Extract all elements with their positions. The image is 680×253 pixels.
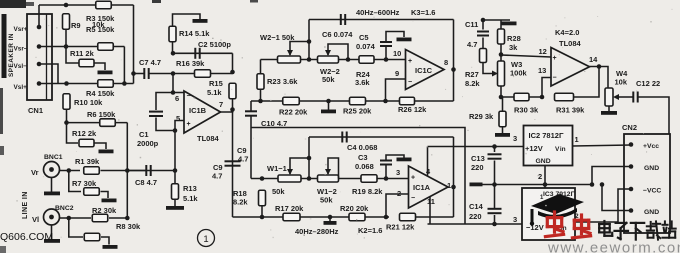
svg-text:1: 1 xyxy=(575,135,579,144)
svg-text:220: 220 xyxy=(469,212,482,221)
svg-text:R15: R15 xyxy=(209,79,223,88)
frequency label 40Hz-280Hz xyxy=(295,227,339,236)
IC3 label xyxy=(543,191,575,198)
op-amp IC1A xyxy=(409,166,449,208)
svg-text:3: 3 xyxy=(513,134,517,143)
wire BNC2 out xyxy=(60,217,92,219)
capacitor C14 xyxy=(488,209,502,213)
resistor R24 xyxy=(359,56,374,64)
potentiometer W1-2 xyxy=(318,175,339,182)
svg-text:R20 20k: R20 20k xyxy=(340,204,369,213)
svg-text:R7 30k: R7 30k xyxy=(72,179,97,188)
svg-text:R19 8.2k: R19 8.2k xyxy=(352,187,383,196)
scan artifact top-left corner xyxy=(0,0,34,8)
resistor R19 xyxy=(361,175,377,183)
svg-text:+: + xyxy=(408,58,412,65)
node pin6 xyxy=(171,90,176,95)
R19 value label xyxy=(352,187,383,196)
capacitor C9 xyxy=(225,161,241,165)
resistor R25 xyxy=(350,97,366,105)
svg-text:40Hz–280Hz: 40Hz–280Hz xyxy=(295,227,339,236)
svg-text:11: 11 xyxy=(427,197,435,206)
pin 10 label xyxy=(393,49,401,58)
pin Vsl+ dot xyxy=(37,81,42,86)
wire pin12 xyxy=(501,55,551,57)
regulator IC3 7912 xyxy=(522,188,575,240)
svg-text:Vl: Vl xyxy=(32,215,39,224)
CN2 +Vcc label xyxy=(643,143,659,150)
pin 2 label IC2 xyxy=(538,172,542,181)
wire C1 top xyxy=(156,93,173,111)
pin Vsr- label xyxy=(14,46,28,53)
svg-text:+: + xyxy=(187,121,191,128)
W4 label xyxy=(616,69,628,78)
svg-text:R4 150k: R4 150k xyxy=(86,89,115,98)
wire R9 to Vsr- node xyxy=(65,29,67,47)
wire BNC1 out xyxy=(60,170,81,172)
resistor R5 xyxy=(98,43,114,51)
IC1B plus sign xyxy=(187,121,191,128)
wire +12V rail xyxy=(428,146,524,148)
C5 label xyxy=(359,33,369,42)
svg-text:R29 3k: R29 3k xyxy=(469,112,494,121)
svg-text:SPEAKER IN: SPEAKER IN xyxy=(8,33,15,77)
svg-text:C14: C14 xyxy=(469,202,484,211)
wire R23 top xyxy=(260,60,262,75)
svg-text:W1−1: W1−1 xyxy=(267,164,287,173)
wire R7 to ground xyxy=(101,192,109,199)
svg-text:Vsl+: Vsl+ xyxy=(14,84,28,91)
svg-text:50k: 50k xyxy=(320,196,333,205)
svg-text:C5: C5 xyxy=(359,33,369,42)
capacitor C5 xyxy=(380,42,392,46)
op-amp IC1C xyxy=(406,50,445,90)
C3 label xyxy=(358,153,368,162)
wire C11 R28 gnd link xyxy=(483,19,510,21)
wire R31 to output riser xyxy=(574,67,600,98)
node W2 rail a xyxy=(307,57,312,62)
pin Vsl- label xyxy=(14,63,28,70)
wire C2 right drop xyxy=(232,53,234,72)
pin 3 label xyxy=(396,168,400,177)
node pin9 junction xyxy=(383,99,388,104)
pin Vsr+ label xyxy=(14,26,28,33)
node pin5 drop C1 xyxy=(173,128,178,133)
wire top rail drop xyxy=(133,5,135,84)
resistor R6 xyxy=(100,119,116,127)
svg-text:−: − xyxy=(187,93,191,100)
wire R23 bottom xyxy=(260,89,262,101)
C4 value label xyxy=(347,143,377,152)
CN2 pin +Vcc dot xyxy=(629,142,634,147)
IC2 label xyxy=(529,131,564,140)
potentiometer W3 xyxy=(498,61,505,86)
resistor R17 xyxy=(283,213,300,221)
capacitor C13 xyxy=(488,154,502,158)
IC2 GND label xyxy=(536,158,551,165)
potentiometer W2-1 xyxy=(278,56,301,63)
ground C3 xyxy=(397,158,412,162)
pin Vsl- dot xyxy=(37,62,42,67)
wire IC3 gnd riser xyxy=(544,185,546,189)
pin 9 label xyxy=(395,69,399,78)
R9 label xyxy=(71,21,81,30)
W3 value label xyxy=(510,69,528,78)
svg-text:IC1B: IC1B xyxy=(189,106,207,115)
W4 wiper arrow xyxy=(613,94,619,100)
svg-text:K4=2.0: K4=2.0 xyxy=(555,28,579,37)
wire R18 bottom xyxy=(261,206,263,218)
svg-text:Vsr+: Vsr+ xyxy=(14,26,28,33)
resistor R1 xyxy=(84,167,100,175)
wire pin6 stub xyxy=(173,92,184,94)
svg-text:4.7: 4.7 xyxy=(467,40,477,49)
watermark site name xyxy=(599,221,676,240)
wire R30 rail xyxy=(501,96,542,98)
svg-text:−: − xyxy=(553,75,557,82)
BNC2 ground stem xyxy=(51,225,53,239)
wire gnd stem W2 xyxy=(328,101,330,110)
svg-text:8.2k: 8.2k xyxy=(465,79,480,88)
pin 8 label xyxy=(444,58,448,67)
svg-text:R21 12k: R21 12k xyxy=(386,223,415,232)
resistor R16 xyxy=(195,70,211,78)
node C13 top xyxy=(492,144,497,149)
W2-1 wiper arrow xyxy=(287,50,293,56)
W1-2 value label xyxy=(320,196,333,205)
capacitor C2 xyxy=(195,48,199,59)
node IC1B output xyxy=(230,107,235,112)
wire R7 feed xyxy=(69,171,81,192)
svg-text:+Vcc: +Vcc xyxy=(643,143,659,150)
gain label K3 xyxy=(411,8,435,17)
pin 2 label xyxy=(397,189,401,198)
svg-text:R23 3.6k: R23 3.6k xyxy=(267,77,298,86)
watermark url xyxy=(547,240,680,253)
scan speck left b xyxy=(0,246,6,253)
R14 value label xyxy=(179,29,210,38)
R1 value label xyxy=(75,157,100,166)
wire W1 lower rail xyxy=(233,216,390,218)
C9 label left xyxy=(213,163,223,172)
resistor R28 xyxy=(498,29,505,44)
ground gnd rail left xyxy=(470,183,483,187)
wire K4 output xyxy=(590,67,609,89)
wire mid link xyxy=(251,128,465,225)
C8 value label xyxy=(135,178,157,187)
C12 value label xyxy=(636,79,660,88)
wire pin13 riser xyxy=(542,78,551,98)
svg-text:14: 14 xyxy=(589,55,598,64)
svg-text:C3: C3 xyxy=(358,153,368,162)
svg-text:R5 150k: R5 150k xyxy=(86,25,115,34)
wire C1 bottom xyxy=(156,118,175,131)
node W2 rail b xyxy=(346,57,351,62)
node W3 bottom xyxy=(499,95,504,100)
R29 value label xyxy=(469,112,494,121)
svg-text:C7 4.7: C7 4.7 xyxy=(139,58,161,67)
wire W1 top drop xyxy=(308,137,310,179)
node C14 bottom xyxy=(492,222,497,227)
R24 value label xyxy=(355,78,370,87)
svg-text:2: 2 xyxy=(397,189,401,198)
pin 1 label IC3 xyxy=(540,195,544,201)
C13 label xyxy=(471,154,485,163)
svg-text:100k: 100k xyxy=(510,69,528,78)
svg-text:50k: 50k xyxy=(272,187,285,196)
W2-1 label xyxy=(260,33,295,42)
wire C8 xyxy=(127,170,175,172)
wire C10 stub top xyxy=(250,101,252,111)
resistor R7 xyxy=(84,188,100,196)
C9 label right xyxy=(237,146,247,155)
node C11 top xyxy=(481,18,486,23)
pin Vsr- dot xyxy=(37,44,42,49)
IC1C plus sign xyxy=(408,58,412,65)
wire gnd to CN2 bottom xyxy=(602,185,631,211)
pin 12 label xyxy=(539,47,547,56)
W1-2 label xyxy=(317,187,337,196)
ground C5 xyxy=(397,38,412,42)
svg-text:C10 4.7: C10 4.7 xyxy=(261,119,287,128)
resistor R20 xyxy=(349,213,365,221)
potentiometer W4 xyxy=(605,88,613,106)
resistor R30 xyxy=(514,93,529,101)
C3 value label xyxy=(355,162,374,171)
wire output 7 xyxy=(221,110,233,113)
node C8 right xyxy=(173,168,178,173)
W1-2 wiper xyxy=(328,158,339,179)
R25 value label xyxy=(343,107,372,116)
wire C7 to R16 node xyxy=(149,73,173,75)
node pin13 junction xyxy=(540,95,545,100)
BNC2 label xyxy=(55,205,74,212)
svg-text:2000p: 2000p xyxy=(137,139,159,148)
node gnd rail b xyxy=(543,182,548,187)
svg-text:Vsl−: Vsl− xyxy=(14,63,28,70)
R15 label xyxy=(209,79,223,88)
regulator IC2 7812 xyxy=(524,126,573,166)
svg-text:C1: C1 xyxy=(139,130,149,139)
wire C14 bottom xyxy=(494,215,496,224)
svg-text:GND: GND xyxy=(644,209,659,216)
svg-text:C8 4.7: C8 4.7 xyxy=(135,178,157,187)
C1 value label xyxy=(137,139,159,148)
W2-2 value label xyxy=(322,75,335,84)
C9 value label right xyxy=(238,155,248,164)
svg-text:R26 12k: R26 12k xyxy=(398,105,427,114)
C10 value label xyxy=(261,119,287,128)
R2 value label xyxy=(92,206,117,215)
wire R29 top xyxy=(502,97,504,112)
TL084 label xyxy=(197,134,220,143)
R18 value label xyxy=(233,198,248,207)
svg-text:C6 0.074: C6 0.074 xyxy=(322,30,353,39)
node R18 top xyxy=(260,176,265,181)
wire R10 to lower rail xyxy=(66,109,68,123)
resistor R11 xyxy=(79,59,94,67)
wire R13 to ground xyxy=(174,199,176,206)
node R1 bus junction xyxy=(125,168,130,173)
Vl label xyxy=(32,215,39,224)
wire W1 rail xyxy=(251,178,409,180)
svg-text:IC1A: IC1A xyxy=(413,183,431,192)
wire IC3 out to CN2 xyxy=(575,189,631,222)
ground R29 xyxy=(495,133,510,137)
R15 value label xyxy=(207,88,222,97)
svg-text:Vsr−: Vsr− xyxy=(14,46,28,53)
svg-text:CN1: CN1 xyxy=(28,106,43,115)
pin 3 label IC3 xyxy=(513,215,517,224)
resistor R27 xyxy=(480,49,487,63)
LINE IN label xyxy=(22,191,29,219)
K4 plus sign xyxy=(553,55,557,62)
CN2 GND1 label xyxy=(644,165,659,172)
node R16 wire left xyxy=(171,71,176,76)
wire pin11 riser xyxy=(429,197,431,224)
IC2 Vin label xyxy=(555,146,566,153)
svg-text:C12 22: C12 22 xyxy=(636,79,660,88)
C7 value label xyxy=(139,58,161,67)
wire gnd to CN2 top xyxy=(592,167,631,185)
svg-text:5.1k: 5.1k xyxy=(207,88,222,97)
resistor R12 xyxy=(79,139,94,147)
wire C7 left xyxy=(134,73,145,75)
svg-text:R30 3k: R30 3k xyxy=(514,106,539,115)
SPEAKER IN label xyxy=(8,33,15,77)
wire Vsl- jog xyxy=(39,64,58,84)
wire C13 stub xyxy=(494,147,496,153)
potentiometer W2-2 xyxy=(318,56,339,63)
C9 value label left xyxy=(212,172,222,181)
svg-text:4.7: 4.7 xyxy=(212,172,222,181)
R9 value label xyxy=(92,20,105,29)
node C7 junction xyxy=(131,71,136,76)
capacitor C7 xyxy=(144,68,148,79)
pin 4 label xyxy=(426,167,431,176)
gain label K2 xyxy=(358,226,382,235)
IC3 -12V label xyxy=(526,223,544,232)
svg-text:1: 1 xyxy=(447,181,451,190)
pin 1 label xyxy=(447,181,451,190)
pin 3 label IC2 xyxy=(513,134,517,143)
wire C3 riser xyxy=(385,165,387,179)
R5 value label xyxy=(86,25,115,34)
IC3 Vin label xyxy=(556,225,567,232)
resistor R15 xyxy=(229,83,236,99)
svg-text:R13: R13 xyxy=(183,184,197,193)
svg-text:CN2: CN2 xyxy=(622,123,637,132)
svg-text:−12V: −12V xyxy=(526,223,544,232)
W1-1 label xyxy=(267,164,287,173)
node R15 top xyxy=(230,70,235,75)
W1-1 wiper arrow xyxy=(287,169,293,175)
wire C11 to R27 xyxy=(482,38,484,49)
svg-text:GND: GND xyxy=(644,165,659,172)
svg-text:R9: R9 xyxy=(71,21,81,30)
wire C13 to gnd rail xyxy=(494,161,496,210)
wire R2 to bus xyxy=(109,217,127,219)
ground R12 xyxy=(99,150,114,154)
wire R11 to ground xyxy=(94,63,105,70)
pin Vsr+ dot xyxy=(37,25,42,30)
svg-text:IC1C: IC1C xyxy=(415,66,433,75)
capacitor C8 xyxy=(146,165,150,176)
svg-text:5.1k: 5.1k xyxy=(183,194,198,203)
wire R12 to ground xyxy=(94,143,106,149)
CN2 pin GND1 dot xyxy=(629,164,634,169)
node W1 gnd junction xyxy=(328,215,333,220)
wire IC1A output riser xyxy=(453,137,455,217)
op-amp IC1B xyxy=(184,91,221,133)
wire W2 top feedback xyxy=(309,19,454,21)
svg-text:−: − xyxy=(408,79,412,86)
wire R1 to bus xyxy=(101,170,147,172)
resistor R9 xyxy=(63,14,70,30)
ground BNC1 xyxy=(44,192,60,196)
wire W2 rail xyxy=(261,59,406,61)
resistor R13 xyxy=(172,184,179,200)
svg-text:40Hz–600Hz: 40Hz–600Hz xyxy=(356,8,400,17)
svg-text:R16 39k: R16 39k xyxy=(176,59,205,68)
BNC1 label xyxy=(44,154,63,161)
circled 1 symbol xyxy=(198,230,215,247)
pin 2 label IC3 xyxy=(575,213,579,220)
W1-2 wiper arrow xyxy=(325,169,331,175)
wire R28 top xyxy=(500,20,502,29)
capacitor C11 xyxy=(477,32,489,36)
wire R21 to output riser xyxy=(416,216,454,218)
wire pin9 riser xyxy=(386,79,406,101)
watermark cap logo xyxy=(530,194,584,226)
svg-text:3: 3 xyxy=(396,168,400,177)
wire IC2 gnd pin xyxy=(544,166,546,185)
node IC1C output xyxy=(451,67,456,72)
R18 label xyxy=(233,189,247,198)
wire R8 to ground xyxy=(101,237,109,245)
CN2 GND2 label xyxy=(644,209,659,216)
connector CN1 xyxy=(27,14,52,100)
svg-text:3.6k: 3.6k xyxy=(355,78,370,87)
ground W1 rail xyxy=(324,221,337,225)
IC1A label xyxy=(413,183,431,192)
svg-text:+: + xyxy=(553,55,557,62)
wire W2 lower rail xyxy=(251,100,454,102)
R26 value label xyxy=(398,105,427,114)
R8 value label xyxy=(116,222,141,231)
IC1A plus sign xyxy=(411,175,415,182)
pin 5 label xyxy=(176,114,180,123)
svg-text:R10 10k: R10 10k xyxy=(74,98,103,107)
wire top rail xyxy=(39,4,134,6)
wire gnd mid rail xyxy=(476,184,592,186)
W1-1 wiper xyxy=(290,158,309,174)
IC1A minus sign xyxy=(411,195,415,202)
W3 wiper arrow xyxy=(492,71,498,77)
W2-2 wiper arrow xyxy=(325,50,331,56)
svg-text:K2=1.6: K2=1.6 xyxy=(358,226,382,235)
ground R11 xyxy=(98,71,113,75)
wire C3 to ground xyxy=(386,155,404,161)
pin 1 label IC2 xyxy=(575,135,579,144)
svg-text:TL084: TL084 xyxy=(197,134,220,143)
svg-text:R11 2k: R11 2k xyxy=(70,49,95,58)
R28 label xyxy=(507,34,521,43)
C5 value label xyxy=(356,42,376,51)
svg-text:C4 0.068: C4 0.068 xyxy=(347,143,377,152)
R6 value label xyxy=(87,110,116,119)
wire W2 top drop xyxy=(308,20,310,60)
